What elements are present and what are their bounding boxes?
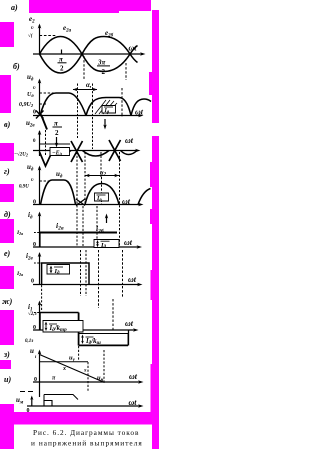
X dip 2 bbox=[109, 140, 121, 161]
magenta right column bbox=[152, 10, 159, 123]
down arrow below pi/2 bbox=[56, 137, 58, 145]
dashed vertical x83 panel d bbox=[82, 206, 84, 246]
y-axis panel i bbox=[31, 397, 33, 406]
dashed vertical x101 gap v-g bbox=[100, 152, 102, 177]
pulse iv bbox=[42, 263, 89, 285]
svg-text:√2,ɜ: √2,ɜ bbox=[28, 311, 37, 317]
caption box bbox=[14, 425, 152, 449]
svg-text:б): б) bbox=[13, 62, 20, 71]
uy level line bbox=[40, 361, 89, 363]
svg-text:ωt: ωt bbox=[129, 44, 138, 53]
y-axis panel z bbox=[39, 351, 41, 397]
dashed peak level panel a bbox=[40, 35, 58, 37]
ramp diagonal bbox=[40, 355, 105, 383]
dashed vertical x104 panel z bbox=[103, 350, 105, 382]
dashed vertical alpha left bbox=[77, 84, 79, 116]
boxed Id label panel g bbox=[95, 193, 109, 201]
svg-text:√(: √( bbox=[28, 33, 33, 39]
small start crossing bbox=[36, 111, 44, 119]
svg-text:Iд: Iд bbox=[96, 196, 102, 202]
svg-text:I2а: I2а bbox=[16, 271, 23, 277]
svg-text:ωt: ωt bbox=[129, 372, 138, 381]
svg-text:х: х bbox=[62, 366, 66, 372]
dashed level 0.9U2 bbox=[40, 103, 48, 105]
svg-text:ωt: ωt bbox=[128, 275, 137, 284]
y-axis panel g bbox=[39, 167, 41, 205]
x-axis panel v bbox=[33, 150, 138, 152]
dashed vertical pi panel a bbox=[83, 56, 85, 80]
magenta left column blocks bbox=[0, 22, 14, 47]
alpha double arrow bbox=[73, 89, 97, 91]
pulse left edge bbox=[39, 233, 41, 248]
dashed level Ud bbox=[40, 92, 55, 94]
svg-text:I2а: I2а bbox=[16, 230, 23, 236]
arch 1 panel g bbox=[41, 180, 76, 205]
y-axis panel v bbox=[39, 131, 41, 156]
arc dip 0 panel v bbox=[52, 151, 71, 156]
dashed vertical x77.5 panel v bbox=[77, 117, 79, 138]
hatch area under arch2 bbox=[95, 100, 117, 114]
dashed vertical x80.5 bbox=[80, 250, 82, 296]
white background bbox=[0, 0, 159, 449]
dashed vertical x113 panel zh bbox=[112, 299, 114, 330]
dashed vertical x45.5 bbox=[45, 130, 47, 155]
x-axis panel d bbox=[33, 246, 140, 248]
svg-text:0: 0 bbox=[31, 279, 34, 285]
down arrow x105 bbox=[104, 119, 106, 127]
svg-text:0,9U: 0,9U bbox=[19, 185, 29, 190]
dashed level Id panel e bbox=[34, 262, 41, 264]
dashed level panel zh bbox=[34, 312, 39, 314]
svg-text:3π: 3π bbox=[97, 59, 106, 67]
x-axis panel a bbox=[33, 53, 143, 55]
svg-text:ωt: ωt bbox=[125, 319, 134, 328]
square wave right edge bbox=[128, 330, 130, 346]
square wave negative bottom bbox=[79, 345, 128, 347]
svg-text:д): д) bbox=[4, 210, 11, 219]
pi/2 tick on axis bbox=[61, 50, 63, 55]
svg-text:г): г) bbox=[4, 167, 10, 176]
dashed vertical x88 panel z bbox=[87, 362, 89, 391]
svg-text:0: 0 bbox=[33, 325, 36, 331]
pulse top thick bbox=[40, 232, 117, 234]
svg-text:2: 2 bbox=[102, 68, 106, 76]
y-axis panel b bbox=[39, 80, 41, 116]
sine e2b negative arch bbox=[40, 54, 83, 73]
ud arch 2 bbox=[86, 98, 131, 116]
magenta top band left part bbox=[29, 0, 119, 13]
arc dip 2 panel v bbox=[121, 151, 138, 155]
svg-text:−√2U2: −√2U2 bbox=[14, 152, 28, 158]
tick dashes above um bbox=[20, 391, 33, 393]
svg-text:Iд/kш: Iд/kш bbox=[85, 338, 102, 346]
sine e2a positive arch bbox=[40, 37, 83, 55]
svg-text:ωt: ωt bbox=[135, 108, 144, 117]
boxed -Ed label bbox=[50, 148, 70, 156]
dashed level panel g bbox=[40, 180, 51, 182]
square wave transition bbox=[78, 313, 80, 346]
svg-text:2: 2 bbox=[60, 65, 64, 73]
small pulse panel i bbox=[44, 401, 52, 407]
square wave positive bbox=[40, 313, 79, 331]
level line -Ed bbox=[40, 143, 71, 145]
boxed Id/ktr label 1 bbox=[43, 321, 83, 333]
dashed center of arch2 bbox=[101, 177, 103, 204]
dashed vertical x122 panel b bbox=[121, 88, 123, 117]
y-axis panel e bbox=[39, 254, 41, 285]
svg-text:−Eд: −Eд bbox=[52, 151, 63, 157]
boxed Id/kw label 2 bbox=[79, 334, 128, 346]
dashed vertical 2pi panel a bbox=[125, 63, 127, 80]
boxed Id label panel b bbox=[102, 106, 116, 114]
dashed vertical x41.6 below axis bbox=[41, 285, 43, 310]
magenta top band right part bbox=[119, 0, 151, 11]
x-axis panel zh bbox=[33, 329, 136, 331]
svg-text:2: 2 bbox=[55, 129, 59, 137]
ud arch 3 partial bbox=[131, 99, 151, 116]
dashed vertical alpha right bbox=[92, 84, 94, 116]
X dip 1 bbox=[71, 141, 83, 162]
svg-text:α,: α, bbox=[86, 81, 92, 89]
svg-text:и): и) bbox=[4, 375, 11, 384]
y-axis panel d bbox=[39, 213, 41, 247]
svg-text:0,1ɜ: 0,1ɜ bbox=[25, 339, 33, 344]
svg-text:и напряжений выпрямителя: и напряжений выпрямителя bbox=[31, 439, 143, 448]
svg-text:з): з) bbox=[3, 350, 10, 359]
dashed vertical x86 bbox=[85, 250, 87, 296]
svg-text:х: х bbox=[83, 369, 87, 374]
dashed vertical x92.5 panel v bbox=[92, 117, 94, 149]
y-axis panel zh bbox=[39, 302, 41, 330]
sine e2b positive arch bbox=[82, 37, 130, 55]
svg-text:ж): ж) bbox=[2, 297, 13, 306]
x-axis panel z bbox=[33, 381, 141, 383]
svg-text:0: 0 bbox=[27, 408, 30, 414]
magenta bottom band and caption surround bbox=[0, 404, 14, 449]
svg-text:Iд/kтр: Iд/kтр bbox=[49, 325, 68, 333]
thick start diagonal bbox=[41, 115, 47, 130]
dashed below neg pulse edge bbox=[78, 346, 80, 360]
dashed vertical x77 gap v-g bbox=[76, 152, 78, 246]
svg-text:0,9U2: 0,9U2 bbox=[19, 102, 34, 108]
boxed Id with vertical arrow panel d bbox=[94, 240, 119, 248]
dashed level I2a bbox=[34, 232, 39, 234]
svg-text:π: π bbox=[54, 120, 58, 128]
caption text bbox=[31, 428, 143, 448]
x-axis panel b bbox=[33, 115, 141, 117]
svg-text:и: и bbox=[30, 347, 34, 355]
y-axis panel a bbox=[39, 25, 41, 55]
dashed vertical left alpha2 bbox=[84, 152, 86, 204]
boxed Id with arrow panel e bbox=[47, 265, 70, 275]
sine e2a negative arch bbox=[82, 54, 130, 72]
V dip 0 bbox=[40, 152, 53, 166]
sine third lens bottom bbox=[130, 54, 138, 63]
svg-text:е): е) bbox=[4, 249, 11, 258]
dashed vertical right alpha2 bbox=[119, 152, 121, 247]
magenta transparent-background blocks bbox=[0, 0, 160, 449]
ud arch 1 bbox=[40, 93, 86, 116]
x-axis panel i bbox=[27, 405, 141, 407]
svg-text:0: 0 bbox=[33, 242, 36, 248]
svg-text:ωt: ωt bbox=[125, 136, 134, 145]
sine third lens top bbox=[130, 46, 138, 55]
svg-text:а): а) bbox=[11, 3, 18, 12]
svg-text:Iд: Iд bbox=[104, 108, 110, 114]
dashed vertical x97 panel d bbox=[96, 206, 98, 247]
svg-text:Uд: Uд bbox=[27, 92, 34, 98]
svg-text:ωt: ωt bbox=[122, 197, 131, 206]
svg-text:в): в) bbox=[4, 120, 11, 129]
x-axis panel g bbox=[33, 204, 141, 206]
dashed vertical x97.5 below axis bbox=[98, 250, 100, 308]
arc dip bbox=[83, 151, 110, 157]
pulse left edge tall panel i bbox=[43, 395, 45, 401]
high level line panel i bbox=[44, 395, 78, 400]
svg-text:0: 0 bbox=[33, 200, 36, 206]
double arrow alpha2 bbox=[85, 175, 119, 177]
svg-text:ωt: ωt bbox=[124, 238, 133, 247]
svg-text:ωt: ωt bbox=[129, 398, 138, 407]
up arrow panel d bbox=[106, 216, 108, 223]
arch 2 panel g bbox=[85, 184, 119, 205]
svg-text:0: 0 bbox=[34, 377, 37, 383]
svg-text:Рис. 6.2. Диаграммы токов: Рис. 6.2. Диаграммы токов bbox=[33, 428, 139, 437]
dashed vertical x121 bbox=[122, 250, 124, 298]
crossing marks between arches bbox=[76, 199, 85, 206]
x-axis panel e bbox=[33, 284, 140, 286]
arch 3 partial panel g bbox=[138, 189, 151, 205]
svg-text:0: 0 bbox=[33, 110, 36, 116]
